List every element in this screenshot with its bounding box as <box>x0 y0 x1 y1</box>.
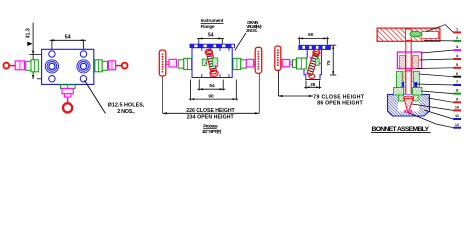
svg-text:2: 2 <box>456 36 458 40</box>
svg-text:8: 8 <box>456 89 458 93</box>
item 6 <box>453 72 461 78</box>
view3 fitting green <box>293 58 307 69</box>
leader 4 <box>420 59 454 60</box>
label instrument flange <box>201 18 224 29</box>
handle bar <box>377 28 440 41</box>
right valve fitting body <box>95 60 107 72</box>
dimension 28 <box>304 81 321 90</box>
dimension 54 bottom view2 <box>197 80 225 91</box>
left valve stem <box>10 65 15 67</box>
svg-text:54: 54 <box>65 35 71 41</box>
instrument flange plate view3 <box>299 45 331 50</box>
dimension 75 vertical <box>326 45 336 75</box>
bolt hole bottom-right <box>80 76 86 82</box>
view2 left handle plate <box>159 50 166 76</box>
leader 8 <box>421 91 453 94</box>
item 4 <box>453 54 461 60</box>
drain valve section view3 <box>306 51 319 77</box>
drain valve top ring view2 <box>205 49 212 54</box>
bonnet lower <box>394 88 422 102</box>
svg-text:60: 60 <box>308 32 314 38</box>
instrument flange plate view2 <box>190 44 235 48</box>
drain valve bottom ring view2 <box>210 70 218 76</box>
view2 left fitting green <box>178 58 191 69</box>
label bonnet assembly <box>371 126 431 133</box>
left handwheel <box>3 63 9 69</box>
bonnet upper <box>396 71 419 87</box>
view2 right handle plate <box>255 47 262 73</box>
svg-text:54: 54 <box>208 32 214 38</box>
leader 1 <box>427 25 454 33</box>
view2 right stem <box>253 62 255 64</box>
view3 gland magenta <box>282 59 290 66</box>
dimension 79/86 height <box>278 94 364 106</box>
stem middle <box>403 52 414 98</box>
item 12 <box>453 123 461 129</box>
dimension 226/234 height <box>163 108 260 120</box>
item 2 <box>453 36 461 42</box>
item 1 <box>453 28 461 34</box>
label dia 12.5 holes <box>108 103 145 116</box>
leader 9 <box>428 98 453 102</box>
leader 2 <box>424 40 453 42</box>
valve bottom ring view3 <box>309 74 315 78</box>
svg-text:54: 54 <box>209 83 215 89</box>
bolt hole top-left <box>49 51 55 57</box>
handle nut <box>410 31 422 36</box>
svg-text:6: 6 <box>456 72 458 76</box>
bolt hole top-right <box>80 51 86 57</box>
drain valve seats view2 <box>202 55 217 67</box>
valve top ring view3 <box>313 50 320 56</box>
item 3 <box>453 45 461 51</box>
valve cone <box>404 96 414 113</box>
leader 7 <box>415 84 453 85</box>
extension line left height <box>162 77 164 114</box>
drain valve section view2 <box>206 50 217 75</box>
svg-text:79 CLOSE HEIGHT: 79 CLOSE HEIGHT <box>313 94 365 100</box>
svg-text:10: 10 <box>455 106 459 110</box>
valve seat green view3 <box>300 57 320 69</box>
svg-text:41.3: 41.3 <box>26 28 32 38</box>
item 7 <box>453 80 461 86</box>
port counterbore left <box>45 60 58 73</box>
svg-text:28: 28 <box>310 82 316 87</box>
stem upper <box>406 41 411 52</box>
leader 3 <box>422 50 454 53</box>
svg-text:75: 75 <box>326 60 331 66</box>
leader 6 <box>419 74 453 77</box>
dimension 54 top view1 <box>50 35 87 52</box>
svg-text:Flange: Flange <box>201 24 215 29</box>
view2 left gland magenta <box>169 59 176 67</box>
svg-text:86 OPEN HEIGHT: 86 OPEN HEIGHT <box>317 101 363 107</box>
dimension 90 view2 <box>189 80 238 101</box>
right valve gland <box>108 61 115 70</box>
leader drain valve <box>235 33 246 51</box>
extension line right height <box>258 74 260 114</box>
left valve gland <box>15 61 24 70</box>
view2 left stem <box>166 62 169 64</box>
item 10 <box>453 106 461 112</box>
svg-text:Ø12.5 HOLES,: Ø12.5 HOLES, <box>108 103 145 109</box>
bottom drain gland <box>62 88 73 97</box>
svg-text:7: 7 <box>456 80 458 84</box>
right valve stem <box>116 65 122 67</box>
view3 handle plate <box>275 46 281 70</box>
svg-text:2 NOS.,: 2 NOS., <box>117 109 135 115</box>
item 8 <box>453 89 461 95</box>
item 5 <box>453 63 461 69</box>
dimension 60 <box>298 32 330 45</box>
right handwheel <box>122 63 128 69</box>
label process connection <box>202 123 222 134</box>
bolt hole bottom-left <box>49 76 55 82</box>
leader dia 12.5 holes <box>85 80 106 113</box>
body view3 <box>304 50 321 80</box>
svg-text:Process: Process <box>203 123 218 128</box>
bottom handwheel <box>63 103 72 112</box>
manifold block front view <box>42 49 94 84</box>
view2 right gland magenta <box>246 59 253 67</box>
svg-text:11: 11 <box>455 114 459 118</box>
packing rings <box>402 82 417 87</box>
svg-text:90: 90 <box>208 94 214 100</box>
manifold body view2 <box>192 48 232 78</box>
svg-text:9: 9 <box>456 97 458 101</box>
bottom drain fitting <box>60 85 75 89</box>
svg-text:234 OPEN HEIGHT: 234 OPEN HEIGHT <box>187 114 235 120</box>
svg-text:BONNET ASSEMBLY: BONNET ASSEMBLY <box>372 126 430 133</box>
item 9 <box>453 97 461 103</box>
leader 10 <box>412 104 453 110</box>
svg-text:5: 5 <box>456 63 458 67</box>
view2 right fitting green <box>233 58 246 69</box>
item 11 <box>453 114 461 120</box>
extension line height view3 <box>277 71 279 97</box>
view3 stem <box>290 62 293 64</box>
gland nut <box>397 52 421 69</box>
svg-text:2NOS.: 2NOS. <box>246 28 258 33</box>
port counterbore right <box>77 60 90 73</box>
svg-text:226 CLOSE HEIGHT: 226 CLOSE HEIGHT <box>186 108 235 114</box>
bottom drain stem <box>67 97 69 102</box>
seat <box>404 110 412 113</box>
svg-text:Instrument: Instrument <box>201 18 224 23</box>
svg-text:1/2" NPT(F): 1/2" NPT(F) <box>202 129 222 134</box>
dimension 54 top view2 <box>197 32 224 44</box>
dimension 41.3 <box>26 23 50 80</box>
leader 11 <box>424 110 453 119</box>
svg-text:12: 12 <box>455 123 459 127</box>
valve body section <box>388 95 430 117</box>
leader 12 <box>409 113 453 128</box>
leader 5 <box>416 67 454 70</box>
svg-text:1: 1 <box>456 28 458 32</box>
svg-text:3: 3 <box>456 45 458 49</box>
left valve fitting body <box>26 60 39 72</box>
label drain valve <box>246 20 262 33</box>
